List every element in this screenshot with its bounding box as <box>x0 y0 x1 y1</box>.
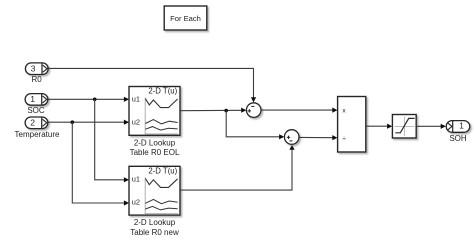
S1 sign minus (top input) <box>251 105 254 107</box>
svg-text:÷: ÷ <box>342 135 346 142</box>
inport 2 chevron <box>43 119 47 126</box>
inport 3 divider <box>41 63 43 74</box>
arrowhead into outport <box>441 124 446 129</box>
arrowhead into sum1 left <box>241 108 246 113</box>
svg-text:SOC: SOC <box>27 106 45 115</box>
inport 3 (R0) <box>25 63 48 75</box>
lookup table U2 (2-D Lookup Table R0 new) <box>129 166 180 215</box>
inport 2 (Temperature) <box>25 117 48 129</box>
sum block S1 <box>246 103 261 118</box>
svg-text:Temperature: Temperature <box>15 130 60 139</box>
outport divider <box>452 121 454 132</box>
inport 1 divider <box>41 94 43 105</box>
S2 sign minus (bottom input) <box>289 140 292 142</box>
outport chevron <box>448 123 452 130</box>
wire SOC to u1 EOL <box>48 98 124 100</box>
outport 1 (SOH) <box>446 121 470 133</box>
inport 3 chevron <box>43 65 47 72</box>
arrowhead into sum2 bottom <box>289 145 294 150</box>
arrowhead into divide x <box>332 108 337 113</box>
svg-text:2-D Lookup: 2-D Lookup <box>134 138 176 147</box>
arrowhead into u1 new <box>124 177 129 182</box>
junction Temperature branch <box>71 120 75 124</box>
svg-text:u2: u2 <box>132 197 140 206</box>
lookup table U1 (2-D Lookup Table R0 EOL) <box>129 87 180 136</box>
arrowhead into saturation <box>387 124 392 129</box>
sum block S2 <box>284 130 299 145</box>
S2 sign plus (left input) <box>287 136 290 139</box>
inport 1 chevron <box>43 96 47 103</box>
for-each block F1 <box>164 6 207 30</box>
svg-text:u2: u2 <box>132 118 140 127</box>
svg-text:3: 3 <box>31 63 36 73</box>
svg-text:1: 1 <box>459 121 464 131</box>
svg-text:2-D Lookup: 2-D Lookup <box>134 218 176 227</box>
arrowhead into u2 EOL <box>124 120 129 125</box>
divide block D1 <box>338 97 366 153</box>
svg-text:2-D T(u): 2-D T(u) <box>148 166 177 175</box>
saturation block SAT1 <box>392 115 416 139</box>
wire saturation to outport <box>417 125 442 127</box>
svg-text:u1: u1 <box>132 95 140 104</box>
SAT1 saturation curve <box>395 118 414 132</box>
arrowhead into divide divisor <box>332 135 337 140</box>
svg-text:1: 1 <box>30 94 35 104</box>
U2 graph wave middle <box>145 199 177 203</box>
svg-text:2-D T(u): 2-D T(u) <box>148 87 177 96</box>
wire R0 to sum1 top <box>49 68 254 97</box>
wire Temperature to u2 EOL <box>48 121 124 123</box>
U2 graph axes <box>145 177 178 213</box>
svg-text:Table R0 EOL: Table R0 EOL <box>130 148 180 157</box>
arrowhead into sum1 top <box>251 97 256 102</box>
svg-text:R0: R0 <box>31 75 42 84</box>
junction U1 output branch <box>224 109 228 113</box>
svg-text:u1: u1 <box>132 174 140 183</box>
U1 graph wave middle <box>145 120 177 124</box>
wire sum1 to divide x input <box>262 109 333 111</box>
arrowhead into u2 new <box>124 200 129 205</box>
U1 graph zigzag upper <box>145 99 177 108</box>
svg-text:SOH: SOH <box>449 134 467 143</box>
U1 graph wave lower <box>145 127 177 131</box>
svg-text:2: 2 <box>30 117 35 127</box>
inport 1 (SOC) <box>25 94 48 106</box>
wire divide to saturation <box>366 125 388 127</box>
svg-text:Table R0 new: Table R0 new <box>130 228 179 237</box>
U2 graph wave lower <box>145 206 177 210</box>
wire U2 output up to sum2 bottom <box>181 150 293 191</box>
inport 2 divider <box>41 117 43 128</box>
arrowhead into sum2 left <box>279 134 284 139</box>
S1 sign plus (left input) <box>248 109 251 112</box>
SAT1 axes <box>404 117 406 137</box>
U2 graph zigzag upper <box>145 179 177 188</box>
wire U1 output to sum1 left <box>181 109 242 111</box>
arrowhead into u1 EOL <box>124 97 129 102</box>
junction SOC branch <box>93 98 97 102</box>
U1 graph axes <box>145 98 178 134</box>
wire sum2 to divide divisor input <box>300 136 333 138</box>
wire U1 branch down to sum2 left <box>226 111 279 137</box>
wire SOC branch down to u1 new <box>95 99 125 180</box>
wire Temperature branch down to u2 new <box>72 122 124 203</box>
svg-text:For Each: For Each <box>170 14 201 23</box>
